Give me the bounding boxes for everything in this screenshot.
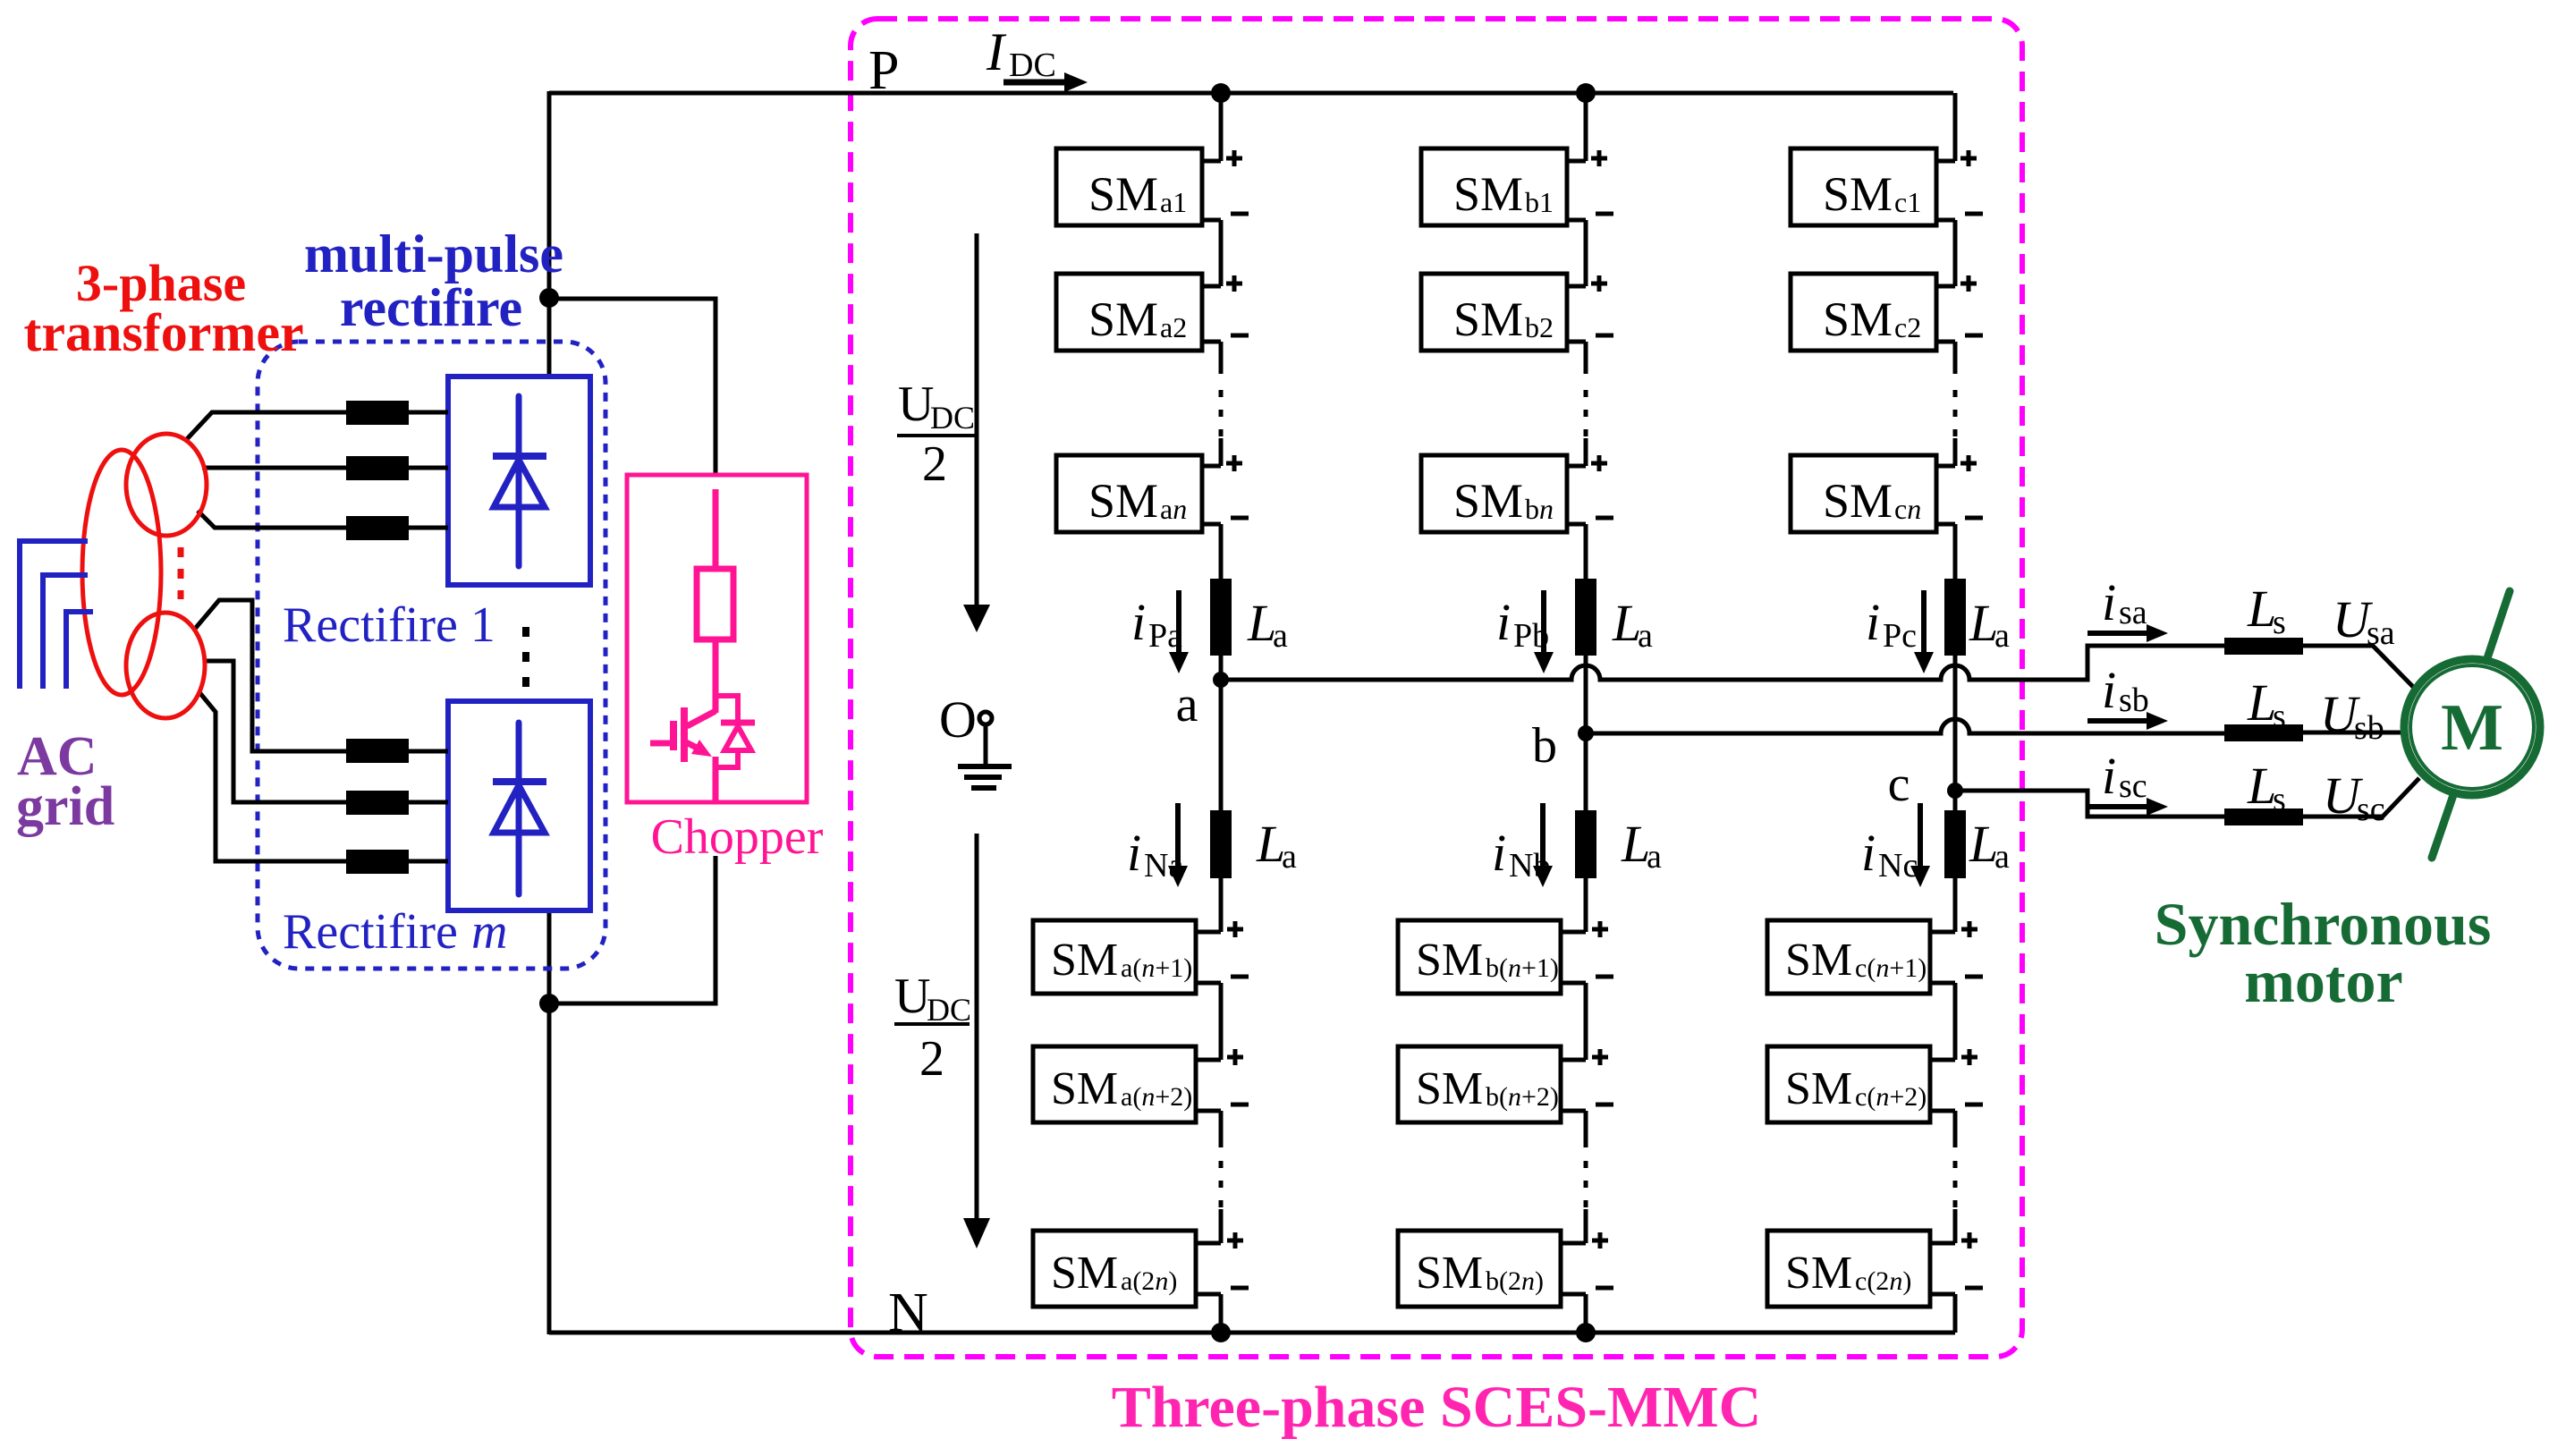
wire phase a upper arm leg [1219,93,1224,161]
pin - SMb(n+2) [1596,1103,1613,1107]
svg-text:c2: c2 [1894,311,1921,343]
svg-text:SM: SM [1088,474,1158,528]
svg-text:a: a [1994,838,2010,876]
junction dot rectifier bottom [539,994,559,1013]
svg-text:grid: grid [16,776,114,837]
svg-text:I: I [986,22,1007,81]
svg-text:a: a [1647,838,1662,876]
ground [984,724,988,766]
svg-text:DC: DC [930,400,975,436]
AC grid connection lines [20,541,88,689]
pin - SMc(2n) [1965,1286,1983,1291]
pin + SMb2 [1591,275,1607,292]
submodule SMb(n+2) lower [1398,1046,1561,1122]
line inductor rectm-2 [346,791,409,815]
terminal ring at node O [979,712,992,724]
submodule SMan upper [1056,455,1202,532]
svg-text:SM: SM [1051,1248,1118,1299]
wire Ls-b to motor [2303,731,2406,735]
svg-text:a2: a2 [1160,311,1187,343]
pin - SMa2 [1231,334,1249,338]
wire junction to chopper top [549,299,716,475]
svg-text:a1: a1 [1160,186,1187,218]
svg-text:i: i [2102,747,2116,805]
voltage arrow UDC/2 upper [975,233,979,606]
arm inductor La upper c [1944,579,1966,656]
svg-text:sa: sa [2367,614,2395,652]
svg-text:cn: cn [1894,493,1921,525]
submodule SMc1 upper [1791,148,1936,225]
pin + SMc1 [1960,150,1977,166]
svg-text:O: O [939,690,977,749]
pin + SMc(2n) [1961,1232,1977,1249]
wire P corner down to rectifier junction [547,91,552,376]
submodule SMa(2n) lower [1033,1231,1196,1307]
svg-text:Chopper: Chopper [651,809,824,865]
svg-text:rectifire: rectifire [340,278,522,337]
node b junction dot [1578,725,1594,741]
dash-dot break lower arm b [1584,1161,1588,1211]
ellipsis dots between rectifiers [522,627,529,688]
svg-text:SM: SM [1823,167,1893,221]
junction dot rectifier top [539,288,559,308]
submodule SMc(2n) lower [1767,1231,1930,1307]
svg-text:SM: SM [1088,292,1158,346]
dash-dot break upper arm c [1953,390,1958,440]
svg-text:a: a [1638,617,1653,655]
wire phase b output bus with hop [1586,719,2226,733]
submodule SMb(2n) lower [1398,1231,1561,1307]
svg-text:DC: DC [1009,47,1056,84]
submodule SMa1 upper [1056,148,1202,225]
pin - SMa(n+1) [1231,975,1249,979]
svg-text:sc: sc [2119,767,2147,805]
arm inductor La upper b [1575,579,1596,656]
svg-text:a(2n): a(2n) [1121,1266,1177,1296]
pin - SMb1 [1596,212,1613,216]
dash-dot break upper arm b [1584,390,1588,440]
pin + SMa(n+2) [1227,1049,1243,1065]
pin + SMb(n+1) [1592,921,1608,937]
wire transformer sec-m to rectifier-m phase2 [203,661,448,802]
svg-text:b(n+1): b(n+1) [1486,953,1559,983]
pin + SMb(n+2) [1592,1049,1608,1065]
svg-text:sa: sa [2119,594,2147,631]
wire inductor to node a [1219,656,1224,680]
current arrow iPc [1921,590,1927,654]
pin + SMan [1226,455,1242,471]
pin - SMan [1231,516,1249,521]
dashed enclosure Three-phase SCES-MMC [851,19,2022,1357]
pin + SMa(n+1) [1227,921,1243,937]
motor shaft line lower [2432,792,2454,858]
submodule SMa(n+1) lower [1033,920,1196,994]
svg-text:bn: bn [1525,493,1554,525]
svg-text:s: s [2273,604,2286,641]
current arrow isa [2087,631,2147,636]
diode D1 inside rectifier 1 [516,396,522,566]
current arrow iNa [1175,803,1181,868]
junction dot P bus phase a [1211,83,1231,103]
line inductor rect1-2 [346,456,409,480]
dash-dot break upper arm a [1219,390,1224,440]
dashed enclosure multi-pulse rectifier [258,342,605,969]
wire phase a output bus with hops [1221,646,2226,680]
chopper resistor R [713,489,719,569]
junction dot N bus phase b [1576,1323,1596,1342]
svg-text:i: i [1492,824,1506,882]
motor M outer circle [2404,659,2540,795]
line inductor rect1-1 [346,401,409,425]
svg-text:a(n+1): a(n+1) [1121,953,1192,983]
svg-text:Rectifire: Rectifire [283,904,458,960]
submodule SMb1 upper [1421,148,1567,225]
submodule SMcn upper [1791,455,1936,532]
svg-text:Three-phase SCES-MMC: Three-phase SCES-MMC [1112,1375,1762,1440]
pin - SMa(n+2) [1231,1103,1249,1107]
pin + SMc(n+2) [1961,1049,1977,1065]
arm inductor La lower a [1210,810,1232,878]
arm inductor La lower c [1944,810,1966,878]
svg-text:SM: SM [1785,1063,1852,1114]
svg-text:M: M [2441,691,2503,765]
svg-text:a: a [1273,617,1288,655]
rectifier 1 bridge box [448,377,590,585]
svg-text:SM: SM [1785,1248,1852,1299]
svg-text:multi-pulse: multi-pulse [304,224,563,284]
svg-text:SM: SM [1416,935,1483,986]
svg-text:a: a [1282,838,1297,876]
svg-text:c(n+2): c(n+2) [1855,1082,1927,1112]
svg-text:SM: SM [1051,935,1118,986]
pin - SMb(n+1) [1596,975,1613,979]
submodule SMb2 upper [1421,274,1567,351]
current arrow iPb [1541,590,1546,654]
svg-text:P: P [868,40,899,101]
wire lower arm leg a [1219,878,1224,932]
svg-text:Rectifire 1: Rectifire 1 [283,597,495,653]
svg-text:2: 2 [922,436,947,492]
svg-text:SM: SM [1088,167,1158,221]
stator inductor Ls phase c [2224,808,2303,825]
wire node c to lower inductor [1953,791,1958,812]
pin + SMbn [1591,455,1607,471]
junction dot N bus phase a [1211,1323,1231,1342]
wire transformer sec1 to rectifier1 phase1 [186,412,448,440]
dash-dot break lower arm c [1953,1161,1958,1211]
pin - SMc(n+1) [1965,975,1983,979]
svg-text:c(2n): c(2n) [1855,1266,1911,1296]
svg-text:i: i [1866,593,1880,651]
line inductor rectm-1 [346,739,409,763]
wire P bus (positive DC rail) [549,91,1953,96]
diode Dm inside rectifier m [516,723,522,894]
wire transformer sec1 to rectifier1 phase2 [202,466,448,470]
submodule SMc2 upper [1791,274,1936,351]
svg-text:i: i [2102,573,2116,631]
svg-text:SM: SM [1453,474,1523,528]
pin + SMb1 [1591,150,1607,166]
wire inductor to node b [1584,656,1588,733]
svg-text:motor: motor [2244,947,2402,1015]
current arrow isc [2087,804,2147,809]
svg-text:SM: SM [1823,292,1893,346]
wire Ls-c to motor [2303,778,2419,817]
wire phase c output bus [1955,791,2226,817]
svg-text:SM: SM [1051,1063,1118,1114]
svg-text:sc: sc [2357,791,2385,828]
wire Ls-a to motor [2303,646,2416,690]
pin + SMa(2n) [1227,1232,1243,1249]
svg-text:i: i [1131,593,1146,651]
svg-text:b2: b2 [1525,311,1554,343]
svg-text:s: s [2273,698,2286,735]
current arrow iPa [1176,590,1181,654]
svg-text:a: a [1994,617,2010,655]
arm inductor La upper a [1210,579,1232,656]
svg-text:c1: c1 [1894,186,1921,218]
svg-text:i: i [1861,824,1876,882]
submodule SMbn upper [1421,455,1567,532]
svg-text:s: s [2273,781,2286,818]
wire transformer sec-m to rectifier-m phase3 [199,691,448,861]
current arrow iNc [1918,803,1923,868]
dash-dot break lower arm a [1219,1161,1224,1211]
line inductor rectm-3 [346,850,409,874]
transformer primary winding (tall ellipse) [82,450,161,695]
svg-text:i: i [1496,593,1511,651]
pin + SMa2 [1226,275,1242,292]
junction dot P bus phase b [1576,83,1596,103]
current arrow iNb [1540,803,1545,868]
pin + SMcn [1960,455,1977,471]
node a junction dot [1213,672,1229,688]
svg-text:SM: SM [1416,1248,1483,1299]
svg-text:SM: SM [1453,167,1523,221]
wire lower arm leg c [1953,878,1958,932]
transformer secondary winding 1 [126,434,207,536]
svg-text:U: U [894,969,930,1024]
ellipsis dots between windings [178,547,184,599]
pin - SMb(2n) [1596,1286,1613,1291]
wire node b to lower inductor [1584,733,1588,812]
wire phase b upper arm leg [1584,93,1588,161]
svg-text:i: i [1127,824,1141,882]
pin - SMc(n+2) [1965,1103,1983,1107]
svg-text:Pc: Pc [1883,617,1917,655]
pin - SMc2 [1965,334,1983,338]
wire N bus (negative DC rail) [549,1331,1955,1335]
svg-text:b(2n): b(2n) [1486,1266,1544,1296]
wire inductor to node c [1953,656,1958,791]
svg-text:m: m [471,904,507,960]
chopper IGBT Q [687,711,716,726]
svg-text:2: 2 [919,1031,944,1087]
svg-text:an: an [1160,493,1187,525]
pin + SMa1 [1226,150,1242,166]
arm inductor La lower b [1575,810,1596,878]
pin + SMc(n+1) [1961,921,1977,937]
pin + SMb(2n) [1592,1232,1608,1249]
svg-text:U: U [898,377,934,432]
svg-text:SM: SM [1785,935,1852,986]
svg-text:sb: sb [2119,681,2149,719]
submodule SMa(n+2) lower [1033,1046,1196,1122]
svg-text:N: N [888,1282,928,1343]
svg-text:sb: sb [2354,709,2384,747]
wire phase c upper arm leg [1953,93,1958,161]
pin - SMa(2n) [1231,1286,1249,1291]
wire node a to lower inductor [1219,680,1224,812]
current arrow isb [2087,718,2147,724]
wire chopper bottom to junction [549,856,716,1003]
submodule SMc(n+2) lower [1767,1046,1930,1122]
pin - SMb2 [1596,334,1613,338]
stator inductor Ls phase b [2224,724,2303,741]
pin - SMcn [1965,516,1983,521]
svg-text:b1: b1 [1525,186,1554,218]
svg-text:b(n+2): b(n+2) [1486,1082,1559,1112]
motor M inner circle [2410,665,2534,789]
svg-text:b: b [1532,718,1557,774]
chopper box [627,475,807,802]
stator inductor Ls phase a [2224,638,2303,655]
svg-text:SM: SM [1453,292,1523,346]
pin - SMbn [1596,516,1613,521]
motor shaft line upper [2486,591,2510,661]
rectifier m bridge box [448,701,590,910]
svg-text:a: a [1176,677,1198,732]
submodule SMb(n+1) lower [1398,920,1561,994]
chopper freewheel diode D [716,696,738,721]
pin - SMc1 [1965,212,1983,216]
svg-text:SM: SM [1823,474,1893,528]
node c junction dot [1947,783,1963,799]
wire transformer sec-m to rectifier-m phase1 [195,600,448,751]
pin + SMc2 [1960,275,1977,292]
svg-text:i: i [2102,661,2116,719]
pin - SMa1 [1231,212,1249,216]
wire rectifier m bottom to N [547,910,552,1334]
wire transformer sec1 to rectifier1 phase3 [198,511,448,528]
svg-text:c: c [1888,757,1910,812]
wire lower arm leg b [1584,878,1588,932]
transformer secondary winding m [126,613,205,718]
svg-text:a(n+2): a(n+2) [1121,1082,1192,1112]
current arrow IDC [1004,80,1068,86]
submodule SMa2 upper [1056,274,1202,351]
voltage arrow UDC/2 lower [975,834,979,1218]
svg-text:SM: SM [1416,1063,1483,1114]
svg-text:transformer: transformer [23,303,303,362]
submodule SMc(n+1) lower [1767,920,1930,994]
svg-text:c(n+1): c(n+1) [1855,953,1927,983]
line inductor rect1-3 [346,516,409,540]
